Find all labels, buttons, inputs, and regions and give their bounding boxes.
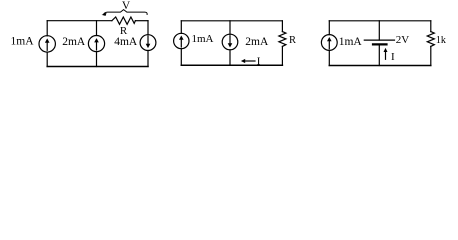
svg-text:2mA: 2mA [62,36,86,48]
wire: bottom wire [181,64,282,66]
wire: right edge below resistor 1k [430,46,432,65]
svg-text:V: V [122,0,131,12]
wire: right edge below 4mA source [147,51,149,67]
wire: battery branch upper [378,21,380,40]
battery V1 2V: short plate [373,43,387,45]
svg-text:R: R [289,35,296,46]
svg-text:I: I [391,51,395,63]
wire: middle branch below 2mA source [229,50,231,65]
wire: left edge above 1mA source [46,21,48,36]
wire: left edge below 1mA source [46,52,48,66]
svg-text:1mA: 1mA [339,36,363,48]
svg-text:4mA: 4mA [114,36,138,48]
wire: middle branch below 2mA source [96,52,98,67]
svg-text:2V: 2V [396,34,410,46]
current arrow I (points left, above bottom wire) [244,60,255,62]
wire: right edge above 4mA source [147,21,149,35]
svg-text:1mA: 1mA [11,35,35,47]
wire: top wire left segment (node at top) [47,20,112,22]
wire: bottom wire [47,66,148,68]
wire: left edge below 1mA source [328,50,330,65]
current source I3 4mA (right edge, arrow down) [140,35,156,51]
wire: top wire [181,20,282,22]
wire: middle branch above 2mA source [229,21,231,35]
resistor 1k (vertical zigzag, right edge) [427,32,434,47]
wire: bottom wire [329,65,431,67]
current source 1mA (left edge, arrow up) [174,33,189,48]
wire: top wire right segment [135,20,148,22]
wire: left edge below 1mA source [180,49,182,65]
current arrow I (points up, under battery) [385,51,387,59]
wire: top wire [329,20,431,22]
wire: left edge above 1mA source [328,21,330,35]
wire: right edge above resistor R [281,21,283,32]
current source I1 1mA (left edge, arrow up) [39,36,55,52]
current source 1mA (left edge, arrow up) [321,35,337,51]
voltage bracket V (arrow over resistor) [104,10,148,15]
svg-text:2mA: 2mA [245,36,269,48]
svg-text:I: I [257,55,261,67]
wire: middle branch above 2mA source [96,21,98,36]
resistor R (vertical zigzag, right edge) [279,32,286,47]
resistor R (horizontal zigzag, top wire) [112,17,135,24]
wire: right edge below resistor R [281,46,283,65]
current source I2 2mA (middle branch, arrow up) [88,36,104,52]
current source 2mA (middle branch, arrow down) [222,34,238,50]
svg-text:R: R [120,25,128,37]
wire: right edge above resistor 1k [430,21,432,32]
wire: left edge above 1mA source [180,21,182,34]
wire: battery branch lower [378,45,380,66]
battery V1 2V: long plate [364,39,394,41]
svg-text:1mA: 1mA [192,33,214,45]
svg-text:1k: 1k [436,35,446,46]
